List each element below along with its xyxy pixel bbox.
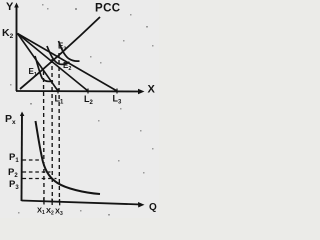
tick L3 on top x-axis [116, 89, 118, 94]
dashed drop line from E3 to bottom axis (X3) [58, 53, 60, 202]
dashed price line P3 [23, 178, 57, 180]
y-axis arrowhead (top chart) [14, 3, 19, 8]
indifference curve IC3 [59, 41, 80, 61]
PCC line [20, 17, 100, 89]
dashed price line P1 [23, 159, 43, 161]
tick X3 on bottom x-axis [59, 199, 61, 205]
svg-text:Y: Y [6, 1, 14, 13]
x-axis (bottom chart) [22, 201, 142, 205]
y-axis (top chart) [16, 6, 18, 91]
tick X2 on bottom x-axis [51, 199, 53, 206]
tick L2 on top x-axis [87, 89, 89, 94]
scan noise speckles [10, 4, 154, 216]
budget line K2-L1 [18, 34, 59, 92]
svg-text:Q: Q [149, 202, 157, 213]
y-axis arrowhead (bottom chart) [20, 112, 25, 117]
dashed price line P2 [23, 171, 51, 173]
tick X1 on bottom x-axis [43, 198, 45, 205]
budget line K2-L3 [18, 34, 118, 92]
dashed drop line from E1 to bottom axis (X1) [43, 71, 46, 201]
indifference curve IC1 [35, 56, 53, 81]
svg-text:PCC: PCC [95, 3, 120, 15]
x-axis arrowhead (bottom chart) [138, 202, 145, 208]
budget line K2-L2 [18, 34, 89, 92]
x-axis arrowhead (top chart) [138, 89, 145, 95]
demand curve [36, 121, 101, 194]
y-axis (bottom chart) [21, 114, 24, 201]
tick L1 on top x-axis [57, 89, 59, 94]
svg-text:X: X [148, 84, 156, 96]
paper background [0, 0, 159, 218]
dashed drop line from E2 to bottom axis (X2) [51, 59, 53, 202]
x-axis (top chart) [16, 90, 141, 93]
indifference curve IC2 [47, 46, 70, 64]
